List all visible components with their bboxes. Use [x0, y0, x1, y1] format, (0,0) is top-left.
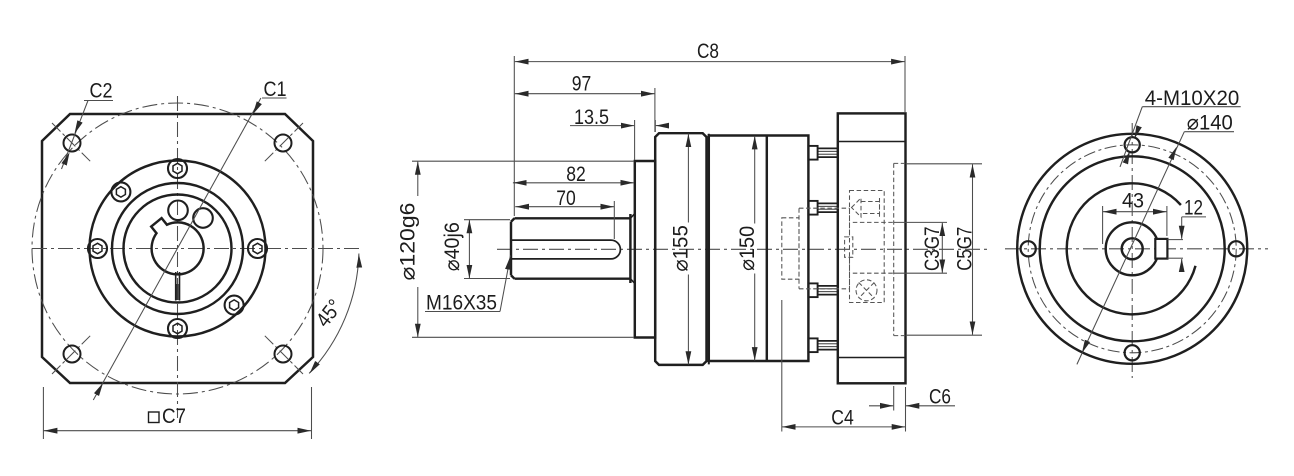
flange back face line — [708, 134, 710, 365]
small hole upper-right — [193, 208, 213, 228]
key on hub — [1155, 239, 1167, 259]
vertical centerline — [1131, 123, 1133, 378]
arrows middle view — [418, 62, 973, 427]
svg-text:C5G7: C5G7 — [953, 227, 976, 271]
dia140 leader diameter line — [1077, 132, 1234, 365]
M10 hole S — [1125, 345, 1140, 360]
43 dimension — [1103, 206, 1167, 244]
svg-text:12: 12 — [1184, 197, 1203, 220]
hidden: clamp screw side view — [852, 198, 880, 217]
corner hole BL — [64, 346, 81, 363]
M10 hole N — [1125, 137, 1140, 152]
M16X35 leader — [425, 311, 500, 313]
82 dimension — [634, 120, 636, 160]
corner hole centerline TR — [263, 123, 303, 163]
hidden: key — [845, 237, 853, 257]
central shaft hole with keyway notch — [151, 218, 203, 274]
bolt circle dash-dot (corner holes) — [32, 103, 323, 394]
corner hole TR — [275, 135, 292, 152]
svg-text:70: 70 — [556, 187, 576, 210]
square-C7 label — [149, 412, 160, 423]
corner hole BR — [275, 346, 292, 363]
input adapter flange — [838, 113, 906, 383]
flange tangent line top — [838, 141, 906, 143]
hub circle — [1106, 222, 1159, 275]
bolt ring circle — [112, 183, 243, 314]
small hole top — [168, 201, 188, 221]
flange tangent line bottom — [838, 357, 906, 359]
hidden: bore to motor side — [853, 222, 894, 273]
svg-text:C8: C8 — [697, 40, 719, 63]
svg-text:⌀150: ⌀150 — [736, 226, 759, 271]
corner hole centerline BL — [52, 334, 92, 374]
svg-text:C4: C4 — [831, 407, 854, 430]
C6 dimension — [893, 386, 895, 411]
dia40j6 dimension — [464, 219, 510, 221]
svg-text:C1: C1 — [264, 78, 287, 101]
C5G7 dimension — [906, 163, 982, 165]
center hole — [1122, 238, 1143, 259]
C2 leader line — [62, 101, 114, 170]
hidden: clamp hub box — [850, 191, 885, 303]
hidden: clamp screw axis view — [856, 280, 877, 301]
corner hole TL — [64, 135, 81, 152]
dia155 dimension — [687, 134, 689, 223]
C4 dimension — [781, 300, 783, 432]
mounting bolts (4) — [808, 146, 837, 352]
body section divider — [766, 136, 768, 362]
hidden: coupling outer — [799, 208, 850, 289]
outer flange circle — [1017, 134, 1247, 364]
svg-text:⌀40j6: ⌀40j6 — [441, 222, 464, 271]
svg-text:C2: C2 — [90, 80, 113, 103]
inner bore circle — [124, 195, 232, 303]
svg-text:82: 82 — [566, 163, 586, 186]
svg-text:⌀140: ⌀140 — [1187, 112, 1233, 135]
svg-text:13.5: 13.5 — [574, 106, 609, 129]
six socket head screws on r80 — [88, 159, 267, 338]
bolt circle dia140 dash-dot — [1028, 145, 1236, 353]
M10 hole E — [1229, 241, 1244, 256]
13.5 dimension — [654, 120, 656, 132]
70 dimension — [613, 201, 615, 239]
svg-text:C6: C6 — [929, 386, 951, 409]
clamp collar circle with gap — [1067, 183, 1196, 314]
svg-text:43: 43 — [1122, 190, 1144, 213]
97 dimension — [654, 88, 656, 132]
corner hole centerline BR — [263, 334, 303, 374]
svg-text:⌀155: ⌀155 — [670, 225, 693, 272]
boss bore chamfers at shaft — [630, 214, 634, 284]
pilot boss (dia 120) — [635, 161, 655, 338]
dia150 dimension — [754, 136, 756, 224]
12 dim extension lines — [1167, 217, 1206, 272]
C3G7 dimension — [894, 221, 947, 223]
clamp slot below hole — [175, 272, 177, 301]
M16 tapped hole in shaft (slot with round end) — [511, 240, 620, 259]
flange square outline — [42, 114, 313, 383]
vertical centerline — [177, 96, 179, 418]
horizontal centerline — [32, 248, 362, 250]
svg-text:C3G7: C3G7 — [921, 227, 944, 271]
hidden: motor shaft — [782, 163, 906, 335]
C1 leader line — [93, 98, 286, 400]
svg-text:97: 97 — [572, 73, 592, 96]
svg-text:⌀120g6: ⌀120g6 — [397, 203, 420, 281]
output boss outer circle — [90, 161, 266, 337]
horizontal centerline — [1005, 248, 1268, 250]
horizontal centerline — [497, 248, 987, 250]
rim circle — [1040, 156, 1225, 341]
45 degree dimension arc — [309, 254, 359, 374]
M10 hole W — [1021, 241, 1036, 256]
corner hole centerline TL — [52, 123, 92, 163]
svg-text:C7: C7 — [162, 405, 186, 428]
svg-text:M16X35: M16X35 — [426, 292, 497, 315]
output shaft — [511, 214, 630, 283]
svg-text:4-M10X20: 4-M10X20 — [1145, 87, 1240, 110]
front flange (dia 155) — [655, 133, 706, 365]
C7 dimension — [43, 387, 311, 439]
dia120g6 dimension — [412, 160, 634, 162]
4-M10X20 leader — [1120, 107, 1241, 167]
C8 dimension — [513, 56, 515, 216]
gear body (dia 150) — [709, 136, 809, 362]
hidden: motor pilot recess — [894, 163, 906, 335]
